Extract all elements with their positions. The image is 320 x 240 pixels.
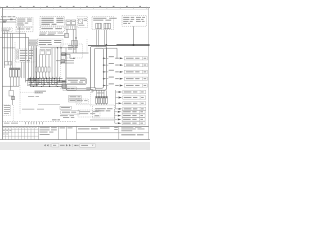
title block cell text marks (3, 127, 37, 135)
wire W1 (2, 33, 25, 82)
harness crossing ticks (30, 77, 59, 87)
dashed divider vertical (90, 92, 92, 107)
wire W2 (0, 37, 29, 80)
bus dark segment (117, 44, 150, 46)
toolbar dropdown caret (92, 145, 94, 146)
wire W25 (12, 100, 14, 105)
toolbar zoom dropdown (80, 144, 95, 148)
dashed partition P2 (19, 85, 21, 114)
label text rows center-bottom (60, 115, 74, 118)
pin row 6 (116, 90, 146, 93)
relay cluster K3 (10, 68, 21, 77)
pin row 8 (116, 102, 146, 105)
dashed enclosure J (fuse list) (15, 49, 35, 62)
toolbar page field text (53, 145, 56, 146)
toolbar page-back button (44, 144, 46, 146)
connector X10 (12, 96, 15, 99)
net label L4 (61, 111, 80, 114)
wire W12 (56, 60, 74, 62)
toolbar page-back2 button (47, 144, 49, 146)
wire W28 pair (21, 62, 23, 78)
connector view table (38, 39, 64, 46)
frame column numbers (6, 6, 141, 8)
diode module D1 (5, 62, 12, 66)
dashed partition P3 (20, 91, 40, 93)
dashed enclosure H (instrument cluster) (92, 17, 117, 30)
wire W23 (86, 89, 93, 92)
harness junction dots (30, 78, 60, 87)
wire E to J (19, 27, 21, 49)
inline connector X7 (61, 60, 65, 63)
pin row 2 (103, 63, 148, 67)
dark segment (52, 119, 57, 120)
wire W27 (2, 47, 15, 49)
pin row 10 (115, 110, 145, 113)
tick cluster (26, 122, 43, 124)
pin row 4 (103, 77, 148, 81)
node N2 (60, 62, 61, 63)
ground rail wire (2, 85, 19, 87)
node N5 (105, 44, 107, 46)
dotted row 2 (22, 108, 34, 111)
pin row 5 (103, 83, 148, 87)
ECU box U1 inner (94, 48, 103, 88)
net label L1 (69, 96, 82, 99)
fuse block label box F-L (2, 28, 12, 32)
connector blob X8 (62, 80, 66, 82)
switch SW1 (40, 50, 45, 55)
title block top line (2, 126, 149, 128)
frame left border (2, 7, 4, 139)
ECU box U1 outer (90, 47, 106, 91)
dashed enclosure I (top right module) (122, 16, 147, 27)
net label L0 (63, 87, 76, 91)
feeder wire W20 (115, 90, 117, 109)
ECU pin wires down (97, 90, 107, 96)
pin row 7 (116, 96, 146, 99)
net label L3 (60, 106, 71, 109)
connector pins P2 in H (104, 23, 110, 29)
feeder wire W21 (114, 109, 116, 123)
frame right border (148, 7, 150, 139)
faint note text (28, 95, 34, 98)
toolbar zoom text (81, 145, 88, 146)
wires to fuse row (36, 48, 58, 78)
wire W4 vertical pair (72, 30, 74, 54)
dashed divider left (14, 42, 16, 70)
dashed enclosure G (77, 17, 88, 28)
toolbar zoom-out icon (74, 144, 76, 147)
pin row 12 (115, 118, 145, 121)
wire W5 from relays (66, 29, 68, 33)
module box U2 inner bottom (68, 87, 91, 89)
wire W3 (39, 35, 65, 37)
page background (0, 0, 150, 150)
pin stub text (97, 92, 101, 95)
node N4 (133, 44, 135, 46)
supply wire A1 (0, 19, 16, 21)
toolbar zoom-in icon (77, 144, 78, 147)
wire W6 quad from S1 (31, 46, 33, 78)
title block dividers (39, 126, 149, 140)
wire W10 (65, 48, 67, 61)
node N3 (73, 58, 74, 59)
wire W17 from module I (133, 26, 135, 45)
switch SW2 (46, 50, 51, 55)
wire W16 (104, 30, 106, 46)
wire W24 (10, 86, 12, 90)
title block revision grid (2, 126, 38, 140)
toolbar separator b (72, 144, 74, 147)
toolbar page field (52, 144, 59, 147)
inline connector X6 (62, 53, 66, 56)
frame top border line (0, 7, 150, 9)
wire W11 (61, 62, 74, 64)
frame bottom border (0, 139, 150, 141)
pin row 13 (115, 122, 145, 125)
pin row 1 (103, 56, 148, 60)
connector pins P1 in H (96, 23, 101, 29)
inline connector X3 (65, 34, 69, 38)
dashed partition P (12, 105, 14, 122)
dotted row (90, 119, 114, 122)
long dashed wire W26 (2, 121, 76, 123)
dashed enclosure F (ignition switch block) (40, 17, 65, 26)
wire W15 (96, 30, 98, 47)
net label L2 (69, 99, 82, 102)
relay K2 (71, 20, 75, 25)
dashed link (38, 104, 60, 106)
junction box J1 (93, 105, 115, 118)
dashed divider horizontal (76, 104, 92, 106)
wire W7 (40, 47, 77, 49)
dashed enclosure F2 (40, 27, 65, 31)
harness end connector (62, 84, 66, 88)
viewer gray band bottom (0, 142, 150, 150)
frame column ticks (1, 7, 147, 9)
fuse row F1-F4 (35, 67, 50, 72)
toolbar fwd button (66, 144, 68, 146)
note text block top-left (1, 16, 15, 21)
small text above title block (4, 122, 18, 125)
sensor B1 (9, 91, 14, 97)
dashed enclosure E (junction block) (16, 18, 33, 27)
connector X11 on U2 (72, 41, 78, 47)
dashed enclosure E2 (16, 27, 33, 31)
ECU label box (66, 78, 86, 84)
frame top inner line (2, 8, 149, 10)
node N1 (57, 47, 58, 48)
dashed note N6 (76, 99, 89, 103)
wire W9 (60, 48, 62, 63)
connector strip X5 (28, 79, 38, 86)
toolbar page count text (60, 145, 65, 146)
dashed enclosure M (center) (61, 44, 83, 58)
toolbar fwd2 button (69, 144, 71, 146)
pin row 11 (115, 114, 145, 117)
wires below K3 (11, 77, 19, 86)
wire W13 (61, 54, 74, 58)
dashed note N7 (78, 110, 100, 117)
left text panel T1 (3, 105, 11, 116)
harness mesh bundle (26, 79, 63, 87)
power bus wire B+ (88, 45, 150, 47)
pin row 9 (116, 107, 146, 110)
wires into J1 (97, 104, 107, 106)
supply wire A2 (0, 21, 16, 23)
fuse column F5-F9 (96, 97, 108, 104)
title block description text (40, 127, 145, 136)
wire W14 (57, 80, 66, 82)
top stub wire W19 (104, 48, 118, 58)
wire labels under F (40, 33, 64, 36)
toolbar separator a (49, 144, 51, 147)
pin row 3 (103, 70, 148, 74)
wire W22 harness to ECU (86, 88, 95, 90)
dashed stub enclosure G2 (86, 39, 88, 52)
left harness bundle verticals (5, 32, 13, 68)
bus drop wire W18 (105, 45, 107, 58)
splice block S1 (29, 40, 37, 46)
relay K1 (66, 20, 71, 25)
module box U2 (66, 53, 90, 90)
connector block X9 (66, 26, 76, 30)
dashed enclosure M lower edge (60, 58, 62, 90)
label text under harness (35, 91, 47, 94)
